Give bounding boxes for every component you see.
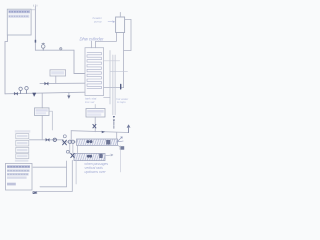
svg-text:updowns over: updowns over	[85, 170, 107, 174]
legend box 1	[16, 134, 29, 139]
svg-text:pump: pump	[93, 19, 102, 23]
svg-text:low set: low set	[85, 100, 95, 104]
drop to boiler	[41, 94, 43, 108]
manifold drop pipes	[66, 161, 68, 187]
lower distribution line	[30, 139, 64, 141]
manifold 1 dark pair circles	[86, 140, 89, 143]
heating flow line	[71, 131, 128, 133]
flow arrowheads	[113, 116, 115, 122]
boiler side pipe	[49, 111, 52, 130]
manifold 2 dark pair circles	[87, 155, 90, 158]
DHW cylinder tank	[85, 48, 104, 96]
tank label text row 1	[8, 10, 30, 13]
inlet valve X	[63, 140, 67, 145]
drop to coil inlet	[74, 50, 85, 73]
dhw pipes right of tank	[109, 51, 111, 98]
valve mark on riser	[35, 40, 37, 43]
manifold right drop	[119, 146, 121, 172]
pipe pump top-right to riser	[124, 19, 131, 50]
bottom-left main pipe	[5, 92, 85, 94]
manifold 1	[77, 139, 118, 145]
gauge 2	[25, 87, 28, 94]
manifold 2 dark mark	[99, 154, 102, 158]
gauge 1	[19, 87, 22, 93]
coil bottom pipe to junction	[104, 87, 124, 89]
connector	[110, 71, 128, 73]
pressure relief valve	[41, 43, 45, 50]
thermometer circle	[63, 135, 66, 138]
tank top pipes	[90, 41, 92, 47]
stem from valve box	[94, 117, 96, 132]
up arrow at line end	[127, 125, 130, 133]
small pump box mid-left	[50, 70, 66, 76]
tank bottom outlet	[104, 97, 110, 104]
junction dot	[120, 84, 122, 89]
cold feed pipe from tank bottom	[5, 35, 7, 94]
gate valve	[14, 92, 18, 95]
signature scribble	[33, 192, 37, 194]
stem from small box	[55, 76, 57, 83]
feed/expansion tank (top-left box)	[7, 9, 31, 35]
pump arrow on main pipe	[33, 93, 36, 97]
mid connector line	[33, 166, 67, 168]
3 port valve box	[86, 109, 105, 118]
header line	[35, 49, 74, 51]
valve on mid pipe	[45, 82, 49, 85]
flow arrow on line	[102, 131, 106, 134]
pump circle	[53, 138, 56, 141]
crossed valve	[93, 124, 96, 128]
arrow valve mid	[68, 92, 70, 95]
bottom return line lower	[33, 190, 72, 192]
small valve on header	[60, 48, 62, 51]
boiler drop pipe	[41, 116, 43, 140]
heating coil	[87, 52, 101, 88]
vent cap	[34, 5, 37, 7]
manifold 1 branch arrows	[116, 133, 118, 140]
legend box 3	[16, 147, 29, 152]
legend footer text	[15, 160, 29, 162]
manifold 2	[74, 153, 105, 160]
manifold 2 inlet X	[71, 153, 74, 157]
tank label text row 2	[8, 15, 29, 18]
wire: box top-right to vent riser	[31, 9, 35, 11]
manifold 1 inlet line	[62, 141, 77, 143]
mid pipe line	[40, 82, 85, 84]
svg-text:to taps: to taps	[117, 100, 126, 104]
valve on line	[46, 138, 50, 141]
bottom return line upper	[40, 186, 67, 188]
boiler box	[35, 108, 50, 116]
inlet circles	[68, 140, 71, 143]
pump return pipe down	[123, 33, 125, 88]
legend box 2	[16, 140, 29, 146]
label arrow	[108, 21, 115, 23]
notes box bottom-left	[6, 163, 33, 190]
drop pipes from inlet circles	[70, 144, 78, 154]
drop from heating line	[70, 131, 72, 142]
vent riser	[34, 6, 36, 50]
svg-text:Dhw cylinder: Dhw cylinder	[80, 37, 105, 42]
stub from pump top	[119, 12, 121, 17]
legend header text	[15, 130, 30, 132]
manifold 1 dark port marks	[106, 140, 110, 145]
header pump box	[116, 17, 125, 33]
legend box 4	[16, 154, 29, 159]
